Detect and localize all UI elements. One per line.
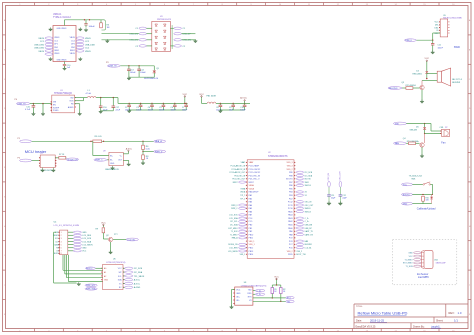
svg-text:C_D-: C_D- [256, 294, 261, 296]
svg-text:Date:: Date: [356, 320, 362, 323]
svg-text:VCC: VCC [101, 222, 106, 224]
svg-text:DP2: DP2 [71, 44, 75, 46]
svg-text:GND: GND [236, 293, 241, 295]
svg-text:VCC: VCC [199, 94, 204, 96]
svg-text:VSS_2: VSS_2 [296, 251, 302, 253]
svg-text:R5 0.05: R5 0.05 [95, 136, 103, 138]
svg-text:UD-: UD- [236, 300, 240, 302]
svg-text:USB_DM1: USB_DM1 [34, 48, 45, 50]
svg-text:VCC: VCC [236, 289, 241, 291]
svg-text:jayphi1: jayphi1 [431, 324, 441, 328]
svg-text:REV:: REV: [449, 311, 455, 315]
svg-text:LCD_SCK: LCD_SCK [229, 215, 238, 217]
svg-text:VBUS: VBUS [70, 37, 76, 39]
svg-text:DP1: DP1 [54, 44, 58, 46]
svg-text:TYPE-C-31-M-12: TYPE-C-31-M-12 [53, 17, 71, 19]
svg-text:100nF: 100nF [438, 48, 444, 50]
svg-text:BOOT0: BOOT0 [286, 179, 292, 181]
svg-text:USB_DM2: USB_DM2 [85, 44, 96, 46]
svg-text:PB15: PB15 [288, 254, 293, 256]
svg-text:A-VCC: A-VCC [86, 267, 93, 270]
svg-text:PC7: PC7 [289, 244, 293, 246]
svg-text:PA15: PA15 [288, 210, 292, 213]
svg-text:HEA_A: HEA_A [232, 237, 239, 240]
svg-text:RED-0805: RED-0805 [413, 74, 423, 76]
svg-text:SWCLK: SWCLK [305, 185, 312, 187]
svg-text:BUZZER: BUZZER [452, 82, 461, 84]
svg-text:100nF: 100nF [136, 109, 142, 111]
svg-text:X2: X2 [305, 192, 307, 194]
svg-text:USB_5V: USB_5V [17, 104, 26, 106]
svg-text:TS-1016-X-X-B: TS-1016-X-X-B [409, 176, 423, 178]
svg-text:PA9: PA9 [289, 230, 292, 233]
svg-text:5: 5 [61, 244, 62, 246]
svg-text:R7 1K: R7 1K [59, 154, 65, 156]
svg-text:Drawn By:: Drawn By: [413, 325, 425, 328]
svg-text:A2: A2 [104, 275, 106, 278]
svg-text:T1_SCB: T1_SCB [405, 266, 413, 268]
svg-text:BOOT_TX0: BOOT_TX0 [296, 254, 305, 256]
svg-text:DN2: DN2 [71, 47, 75, 49]
svg-text:100nF: 100nF [171, 109, 177, 111]
svg-text:100nF: 100nF [240, 109, 246, 111]
svg-text:PB2: PB2 [249, 231, 253, 233]
svg-text:A-VCC: A-VCC [240, 97, 247, 100]
svg-text:Sheet:: Sheet: [436, 320, 444, 323]
svg-text:PD1-OSC_O: PD1-OSC_O [249, 179, 260, 181]
svg-text:VSS_3: VSS_3 [287, 165, 293, 167]
svg-text:TPL_SBON: TPL_SBON [134, 276, 145, 278]
svg-text:100nF: 100nF [182, 109, 188, 111]
svg-text:VSSA: VSSA [240, 187, 246, 190]
svg-text:LCD_SDA: LCD_SDA [229, 217, 238, 220]
svg-text:VDDA: VDDA [249, 187, 255, 190]
svg-text:GND VBUS: GND VBUS [57, 59, 68, 61]
svg-text:LCD_BL: LCD_BL [305, 247, 312, 249]
svg-text:USB_5V: USB_5V [109, 66, 118, 68]
svg-text:PWR_C: PWR_C [95, 160, 103, 162]
svg-text:VDD_1: VDD_1 [249, 244, 255, 246]
svg-text:PB8: PB8 [289, 175, 293, 177]
svg-text:TPS62175DGQR: TPS62175DGQR [54, 93, 72, 95]
svg-text:PC8: PC8 [289, 241, 293, 243]
svg-text:A-VCC: A-VCC [134, 279, 141, 282]
svg-text:VBUS: VBUS [70, 53, 76, 55]
svg-text:2019-11-25: 2019-11-25 [370, 319, 385, 323]
svg-text:I2C_SCL: I2C_SCL [230, 221, 237, 223]
svg-text:100nF: 100nF [148, 109, 154, 111]
svg-text:PA3: PA3 [249, 201, 252, 204]
svg-text:SWDIO: SWDIO [305, 208, 312, 210]
svg-text:BOOT0: BOOT0 [305, 179, 311, 181]
svg-text:PC13-TAMP: PC13-TAMP [249, 164, 260, 167]
svg-text:PA0-WKUP: PA0-WKUP [249, 191, 259, 194]
svg-text:SWO: SWO [305, 182, 310, 184]
svg-text:VCC: VCC [435, 22, 440, 24]
svg-text:LCD_SBON: LCD_SBON [82, 244, 93, 246]
svg-text:max31855: max31855 [418, 277, 429, 279]
svg-text:PB4: PB4 [289, 192, 293, 194]
svg-text:A-VCC: A-VCC [134, 282, 141, 285]
svg-text:8: 8 [61, 253, 62, 255]
svg-text:CC2: CC2 [71, 40, 75, 42]
svg-text:A-GND: A-GND [134, 286, 141, 289]
svg-text:VBUS: VBUS [54, 37, 60, 39]
svg-text:PC5: PC5 [249, 221, 253, 223]
svg-text:PC14-OSC32: PC14-OSC32 [249, 169, 261, 171]
svg-text:VBUS: VBUS [38, 38, 44, 40]
svg-text:CN2: CN2 [434, 259, 438, 261]
svg-text:SWCLK: SWCLK [305, 211, 312, 213]
svg-text:PB14: PB14 [249, 254, 254, 256]
svg-text:C_D+: C_D+ [305, 221, 310, 223]
svg-text:SBU2: SBU2 [70, 50, 75, 52]
svg-text:PD0-OSC_IN: PD0-OSC_IN [249, 175, 261, 177]
svg-text:MICRO-USB-10SMD: MICRO-USB-10SMD [443, 18, 462, 20]
svg-text:USB_DP: USB_DP [305, 228, 313, 230]
svg-text:PC14-ANC32_IN: PC14-ANC32_IN [232, 168, 246, 171]
svg-text:VCC: VCC [409, 256, 414, 258]
svg-text:PC9: PC9 [289, 238, 293, 240]
svg-text:PGND: PGND [53, 110, 59, 112]
svg-text:DN1: DN1 [54, 47, 58, 49]
svg-text:LCD_RES: LCD_RES [229, 247, 238, 249]
svg-text:PD2: PD2 [289, 198, 293, 200]
svg-text:A1: A1 [104, 271, 106, 274]
svg-text:VDD_3: VDD_3 [286, 162, 292, 164]
svg-text:RXD: RXD [248, 293, 253, 295]
svg-text:SBU1: SBU1 [54, 50, 59, 52]
svg-text:DB5W-S-BF: DB5W-S-BF [436, 263, 447, 265]
svg-text:V3: V3 [249, 300, 251, 302]
svg-text:PB6: PB6 [289, 185, 293, 187]
svg-text:DIODE_ON: DIODE_ON [67, 159, 78, 161]
svg-text:Fan: Fan [441, 142, 446, 145]
svg-text:PA13: PA13 [288, 217, 292, 220]
svg-text:VBUS: VBUS [54, 53, 60, 55]
svg-text:LCD_BL: LCD_BL [127, 239, 136, 241]
svg-text:VBUS: VBUS [85, 51, 91, 53]
svg-text:PB7: PB7 [289, 182, 293, 184]
svg-text:SW1: SW1 [411, 178, 415, 180]
svg-text:SW: SW [70, 97, 73, 99]
svg-text:GND: GND [104, 280, 109, 282]
svg-text:Ext Sensor: Ext Sensor [417, 273, 428, 276]
svg-text:T1_MISO: T1_MISO [230, 234, 238, 236]
svg-text:SS8-4W: SS8-4W [410, 129, 418, 131]
svg-text:PC13-ANC/SC_IN: PC13-ANC/SC_IN [231, 164, 246, 167]
svg-text:Calibrate/Upload: Calibrate/Upload [417, 207, 436, 210]
svg-text:VDDA: VDDA [240, 191, 246, 194]
svg-text:T1_MISO: T1_MISO [405, 259, 414, 261]
svg-text:USB_DM1: USB_DM1 [34, 44, 45, 46]
svg-text:USB_D: USB_D [405, 40, 412, 42]
svg-text:SWD: SWD [454, 45, 460, 49]
svg-text:USB_DM: USB_DM [305, 225, 313, 227]
svg-text:1/1: 1/1 [454, 319, 458, 323]
svg-text:EXT_MISO: EXT_MISO [229, 228, 239, 230]
svg-text:I2C_SCB: I2C_SCB [134, 268, 143, 270]
svg-text:VCC: VCC [274, 277, 279, 279]
svg-text:PWR_C: PWR_C [231, 208, 238, 210]
svg-text:VCC: VCC [403, 184, 408, 186]
svg-text:6: 6 [61, 248, 62, 250]
svg-text:PC15-ANC32_OUT: PC15-ANC32_OUT [230, 171, 247, 174]
svg-text:VIN: VIN [395, 123, 399, 125]
svg-text:I2C_SDA: I2C_SDA [134, 271, 143, 274]
svg-text:BOOT0: BOOT0 [403, 194, 411, 196]
svg-text:LCD_SCB: LCD_SCB [82, 238, 91, 240]
svg-text:A-VCC: A-VCC [126, 148, 133, 151]
svg-text:PA8: PA8 [289, 233, 292, 236]
svg-text:PA14: PA14 [288, 214, 292, 217]
svg-text:PB10: PB10 [249, 234, 254, 236]
svg-text:3: 3 [61, 238, 62, 240]
svg-text:PA4: PA4 [249, 204, 252, 207]
svg-text:MCU heater: MCU heater [25, 149, 47, 154]
svg-text:4.7uF: 4.7uF [25, 109, 31, 111]
svg-text:PA1: PA1 [249, 194, 252, 197]
svg-text:PA7: PA7 [249, 214, 252, 217]
svg-text:C_D-: C_D- [305, 218, 310, 220]
svg-text:X1: X1 [305, 195, 307, 197]
svg-text:GND: GND [82, 232, 87, 234]
svg-text:PB1: PB1 [249, 228, 253, 230]
svg-text:PC11: PC11 [288, 205, 293, 207]
svg-text:PA2: PA2 [249, 197, 252, 200]
svg-text:TITLE:: TITLE: [356, 306, 363, 308]
svg-text:HEA_A: HEA_A [155, 140, 162, 143]
svg-text:GND VBUS: GND VBUS [57, 28, 68, 30]
svg-text:VSS_2: VSS_2 [287, 251, 293, 253]
svg-text:Reflow Micro Table USB-PD: Reflow Micro Table USB-PD [358, 311, 408, 316]
svg-text:A0: A0 [104, 267, 106, 270]
svg-text:VBAT: VBAT [249, 161, 255, 164]
svg-text:PWR_SCL: PWR_SCL [86, 285, 95, 287]
svg-text:T1_SCK: T1_SCK [231, 231, 239, 233]
svg-text:VCC: VCC [182, 94, 187, 96]
svg-text:J: J [469, 285, 470, 287]
svg-text:LCD_RES: LCD_RES [82, 235, 91, 237]
svg-text:I2C_SCB: I2C_SCB [305, 172, 313, 174]
svg-text:VDD_2: VDD_2 [286, 169, 292, 171]
svg-text:PD0-OSC_IN: PD0-OSC_IN [234, 175, 245, 177]
svg-text:BUZZER: BUZZER [305, 244, 313, 246]
svg-text:BE-T-9*5.5: BE-T-9*5.5 [452, 79, 463, 81]
svg-text:2: 2 [61, 235, 62, 237]
svg-text:1M: 1M [107, 27, 110, 29]
svg-text:TXD: TXD [248, 289, 252, 291]
svg-text:SCL: SCL [118, 276, 122, 278]
svg-text:PRTR5V0U2X: PRTR5V0U2X [157, 19, 172, 21]
svg-text:GND: GND [403, 204, 408, 206]
svg-text:GND: GND [82, 248, 87, 250]
svg-text:IN-: IN- [110, 159, 113, 161]
svg-text:22uF: 22uF [116, 109, 121, 111]
svg-text:PA10: PA10 [288, 227, 292, 230]
svg-text:VBUS: VBUS [85, 38, 91, 40]
svg-text:100nF: 100nF [159, 109, 165, 111]
svg-text:EasyEDA V5.9.25: EasyEDA V5.9.25 [356, 325, 376, 328]
svg-text:1: 1 [61, 232, 62, 234]
svg-text:100nF: 100nF [130, 72, 136, 74]
svg-text:OSC_OUT: OSC_OUT [339, 171, 341, 181]
svg-text:PB13: PB13 [249, 251, 254, 253]
svg-text:DM-: DM- [435, 25, 439, 27]
svg-text:OSC_OUT: OSC_OUT [305, 205, 315, 207]
svg-text:UART_RX: UART_RX [305, 233, 314, 236]
svg-text:PC10: PC10 [288, 208, 293, 210]
svg-text:J: J [4, 285, 5, 287]
svg-text:100nF: 100nF [140, 72, 146, 74]
svg-text:PB3: PB3 [289, 195, 293, 197]
svg-text:VCC: VCC [82, 251, 87, 253]
svg-text:PA6: PA6 [249, 210, 252, 213]
svg-text:GND: GND [408, 253, 413, 255]
svg-text:VBUS: VBUS [38, 51, 44, 53]
svg-text:GT24C02(TSSOP-8): GT24C02(TSSOP-8) [106, 262, 126, 264]
svg-text:TIP_C: TIP_C [240, 198, 246, 200]
svg-text:I2C_SDA: I2C_SDA [305, 174, 313, 177]
svg-text:C_D+: C_D+ [256, 291, 262, 293]
svg-text:LCD_SBON: LCD_SBON [228, 251, 238, 253]
svg-text:PB9: PB9 [289, 172, 293, 174]
svg-text:DIODE_ON: DIODE_ON [228, 244, 238, 246]
svg-text:PA5: PA5 [249, 207, 252, 210]
svg-text:UART_TX: UART_TX [305, 230, 314, 233]
svg-text:STM32F103RCT6: STM32F103RCT6 [268, 155, 288, 158]
svg-text:USB-C1: USB-C1 [53, 14, 62, 16]
svg-text:EXT_MISO: EXT_MISO [403, 263, 413, 265]
svg-text:PA12: PA12 [288, 220, 292, 223]
svg-text:NRST: NRST [249, 182, 255, 184]
svg-text:PWR_V: PWR_V [231, 205, 238, 207]
svg-text:4: 4 [61, 241, 62, 243]
svg-text:VSS_1: VSS_1 [240, 254, 246, 256]
svg-text:PC12: PC12 [288, 202, 293, 204]
svg-text:GND: GND [110, 163, 115, 165]
svg-text:I2C_SDA: I2C_SDA [230, 224, 238, 227]
svg-text:LCD_SDA: LCD_SDA [82, 240, 91, 243]
svg-text:C21: C21 [438, 45, 441, 47]
svg-text:OSC_IN: OSC_IN [305, 202, 312, 204]
svg-text:PC6: PC6 [289, 247, 293, 249]
svg-text:PB11: PB11 [249, 238, 253, 240]
svg-text:PA11: PA11 [288, 224, 292, 227]
svg-text:OSC_IN: OSC_IN [328, 173, 330, 181]
svg-text:PC4: PC4 [249, 218, 253, 220]
svg-text:PB0: PB0 [249, 225, 253, 227]
svg-text:LCD_0.9_SPI96*64_0.96IN: LCD_0.9_SPI96*64_0.96IN [54, 225, 80, 227]
svg-text:SUP05N05-20: SUP05N05-20 [144, 78, 159, 80]
svg-text:PB12: PB12 [249, 247, 254, 249]
svg-text:FAN: FAN [395, 142, 400, 145]
svg-text:PWR_SDA: PWR_SDA [86, 288, 96, 291]
svg-text:VCC: VCC [424, 58, 429, 60]
svg-text:4.7uH: 4.7uH [86, 93, 92, 95]
svg-text:FB1 600R: FB1 600R [207, 95, 217, 97]
svg-text:100nF: 100nF [89, 26, 96, 28]
svg-text:VSSA: VSSA [249, 184, 255, 187]
svg-text:CC1: CC1 [54, 40, 58, 42]
svg-text:PD1-OSC_OUT: PD1-OSC_OUT [232, 179, 246, 181]
svg-text:BUZZER: BUZZER [389, 88, 398, 90]
svg-text:1.0: 1.0 [458, 311, 462, 315]
svg-text:PWR_V: PWR_V [155, 151, 163, 153]
svg-text:VSS_1: VSS_1 [249, 241, 255, 243]
svg-text:AGND: AGND [68, 106, 74, 109]
svg-text:PB5: PB5 [289, 188, 293, 190]
svg-text:PC15-OSC32: PC15-OSC32 [249, 172, 261, 174]
